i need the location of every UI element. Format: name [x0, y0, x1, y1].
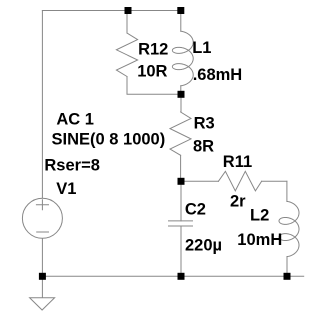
svg-text:R12: R12 [138, 40, 168, 58]
svg-text:L1: L1 [192, 39, 211, 57]
node junction top L1 [177, 7, 184, 14]
capacitor C2 [169, 221, 193, 226]
wire C2 bottom lead [180, 226, 182, 276]
node junction bottom left [39, 273, 46, 280]
svg-text:10R: 10R [137, 63, 167, 81]
resistor R12 [116, 33, 137, 77]
voltage source V1 [22, 198, 62, 238]
svg-text:C2: C2 [185, 200, 206, 218]
node junction bottom L2 [284, 273, 291, 280]
wire L2 top lead [286, 181, 288, 201]
svg-text:220µ: 220µ [185, 237, 222, 255]
wire L2 bottom lead [286, 257, 288, 277]
svg-text:L2: L2 [250, 207, 269, 225]
resistor R3 [170, 112, 191, 155]
wire C2 top lead [180, 181, 182, 221]
svg-text:R11: R11 [223, 153, 252, 171]
wire R12 top lead [126, 11, 128, 34]
wire R11 to L2 [262, 180, 287, 182]
svg-text:8R: 8R [193, 138, 214, 156]
wire R3 bottom lead [180, 155, 182, 181]
wire top rail [42, 10, 180, 12]
inductor L1 [172, 31, 193, 86]
wire below V1 [41, 239, 43, 276]
resistor R11 [218, 171, 261, 191]
node junction R3/C2/R11 [178, 178, 185, 185]
svg-text:AC 1: AC 1 [56, 110, 94, 128]
svg-text:10mH: 10mH [237, 231, 282, 249]
node junction bottom C2 [178, 273, 185, 280]
svg-text:.68mH: .68mH [193, 66, 243, 84]
svg-text:2r: 2r [230, 192, 246, 210]
svg-text:V1: V1 [56, 180, 76, 198]
svg-text:Rser=8: Rser=8 [44, 156, 100, 174]
wire L1 bottom lead [180, 86, 182, 95]
wire R12 bottom lead [127, 77, 181, 95]
svg-text:R3: R3 [194, 115, 215, 133]
wire bottom rail [42, 275, 303, 277]
wire L1 top lead [180, 11, 182, 32]
wire R3 top lead [180, 94, 182, 112]
wire mid to R11 [181, 180, 218, 182]
node junction top R12 [125, 7, 132, 14]
node junction mid L1/R3 [178, 91, 185, 98]
svg-text:SINE(0 8 1000): SINE(0 8 1000) [52, 131, 166, 149]
inductor L2 [279, 201, 299, 256]
wire left vertical [41, 11, 43, 198]
ground [30, 276, 55, 310]
